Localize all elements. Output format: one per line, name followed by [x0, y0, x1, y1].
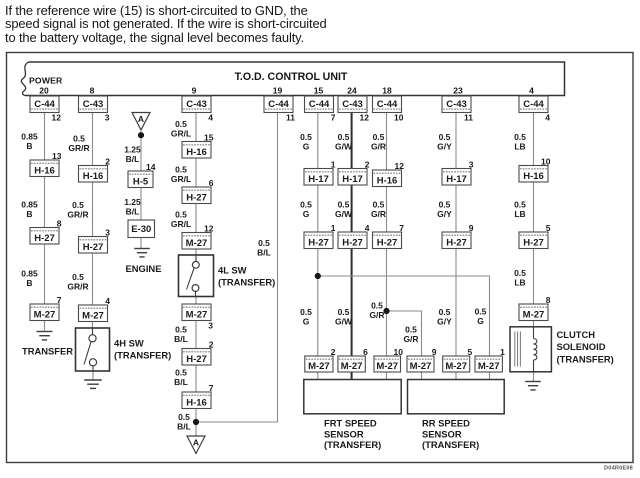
svg-text:GR/R: GR/R — [67, 210, 88, 220]
svg-text:0.85: 0.85 — [21, 269, 38, 279]
svg-text:G/R: G/R — [403, 334, 418, 344]
svg-text:0.5: 0.5 — [300, 200, 312, 210]
wire label: 0.5 G/Y — [437, 132, 452, 152]
wire label: 0.5 LB — [514, 268, 526, 288]
connector H-17 pin 1 — [304, 159, 336, 185]
svg-text:H-5: H-5 — [133, 176, 149, 187]
connector M-27 pin 5 — [443, 347, 473, 372]
svg-text:CLUTCH: CLUTCH — [557, 329, 596, 340]
svg-text:M-27: M-27 — [186, 238, 208, 249]
svg-text:9: 9 — [192, 86, 197, 96]
svg-text:11: 11 — [464, 113, 473, 123]
connector H-16 pin 15 — [182, 132, 214, 158]
svg-text:C-44: C-44 — [268, 99, 289, 110]
svg-text:0.5: 0.5 — [175, 119, 187, 129]
svg-text:0.5: 0.5 — [175, 165, 187, 175]
svg-text:D04R0E08: D04R0E08 — [604, 466, 633, 472]
RR speed sensor (transfer) — [408, 380, 505, 414]
svg-text:H-27: H-27 — [83, 242, 104, 253]
label CLUTCH SOLENOID (TRANSFER) — [557, 329, 614, 364]
svg-text:H-16: H-16 — [523, 171, 544, 182]
svg-text:14: 14 — [146, 162, 156, 172]
svg-text:7: 7 — [331, 113, 336, 123]
svg-text:POWER: POWER — [29, 76, 63, 86]
connector H-27 pin 5 — [519, 223, 551, 249]
svg-text:M-27: M-27 — [82, 310, 104, 321]
svg-text:(TRANSFER): (TRANSFER) — [557, 353, 614, 364]
connector M-27 pin 1 — [475, 347, 505, 372]
svg-text:H-16: H-16 — [186, 397, 207, 408]
svg-text:C-43: C-43 — [342, 99, 363, 110]
svg-text:5: 5 — [467, 347, 472, 357]
connector H-27 pin 4 — [338, 223, 370, 249]
switch 4L SW (transfer) — [179, 255, 214, 297]
svg-text:2: 2 — [331, 347, 336, 357]
wire label: 0.5 GR/L — [171, 210, 191, 230]
svg-text:0.5: 0.5 — [475, 307, 487, 317]
connector C-44 pin 7 — [305, 96, 336, 123]
connector M-27 pin 3 — [182, 304, 213, 331]
junction 0.5 G — [315, 273, 321, 279]
connector M-27 pin 8 — [519, 295, 551, 321]
svg-text:13: 13 — [52, 151, 62, 161]
svg-text:RR SPEED: RR SPEED — [422, 418, 470, 429]
svg-text:0.5: 0.5 — [439, 200, 451, 210]
wire label: 0.5 B/L — [174, 325, 188, 345]
svg-text:H-16: H-16 — [186, 147, 207, 158]
wire label: 0.5 G/W — [335, 307, 353, 327]
svg-text:H-27: H-27 — [446, 237, 467, 248]
junction on wire A — [138, 132, 144, 138]
svg-text:M-27: M-27 — [376, 361, 398, 372]
connector H-5 pin 14 — [128, 162, 156, 188]
svg-text:0.5: 0.5 — [175, 325, 187, 335]
svg-text:A: A — [138, 114, 144, 124]
svg-text:9: 9 — [432, 347, 437, 357]
svg-text:7: 7 — [209, 383, 214, 393]
wire label: 0.5 LB — [514, 200, 526, 220]
svg-text:2: 2 — [365, 159, 370, 169]
wire label: 0.5 GR/R — [67, 272, 88, 292]
svg-text:5: 5 — [546, 223, 551, 233]
svg-text:7: 7 — [57, 295, 62, 305]
wire label: 0.5 G/W — [335, 132, 353, 152]
wire 1.25 B/L column — [140, 131, 142, 249]
svg-text:4: 4 — [105, 296, 110, 306]
svg-text:TRANSFER: TRANSFER — [22, 346, 73, 357]
wire label: 0.5 B/L — [257, 238, 271, 258]
svg-text:B/L: B/L — [174, 377, 188, 387]
svg-text:0.5: 0.5 — [371, 301, 383, 311]
svg-text:20: 20 — [39, 86, 49, 96]
connector H-27 pin 2 — [182, 339, 214, 365]
wire 0.5 B/L column — [195, 297, 197, 437]
ground (transfer) — [37, 332, 53, 340]
wire label: 0.5 G/R — [369, 301, 384, 321]
svg-text:(TRANSFER): (TRANSFER) — [114, 349, 171, 360]
wire label: 1.25 B/L — [124, 145, 141, 165]
svg-text:6: 6 — [209, 178, 214, 188]
svg-text:H-27: H-27 — [186, 354, 207, 365]
svg-text:C-44: C-44 — [309, 99, 330, 110]
connector E-30 — [128, 220, 155, 238]
wire 0.5 B/L from C-44 pin 11 down and left to junction — [196, 96, 278, 423]
wire label: 1.25 B/L — [124, 197, 141, 217]
svg-text:9: 9 — [469, 223, 474, 233]
svg-text:0.5: 0.5 — [300, 307, 312, 317]
connector H-16 pin 2 — [79, 156, 111, 182]
connector C-44 pin 4 — [519, 96, 550, 123]
svg-text:0.5: 0.5 — [405, 325, 417, 335]
svg-text:4: 4 — [529, 86, 534, 96]
svg-text:SENSOR: SENSOR — [422, 428, 462, 439]
svg-text:0.5: 0.5 — [258, 238, 270, 248]
svg-text:G/Y: G/Y — [437, 209, 452, 219]
svg-text:12: 12 — [360, 113, 370, 123]
label 4L SW (TRANSFER) — [218, 265, 275, 288]
label TRANSFER — [22, 346, 73, 357]
svg-text:GR/L: GR/L — [171, 219, 191, 229]
svg-text:G/Y: G/Y — [437, 317, 452, 327]
svg-text:3: 3 — [469, 159, 474, 169]
svg-text:B/L: B/L — [177, 422, 191, 432]
svg-text:B: B — [26, 141, 32, 151]
svg-text:B: B — [26, 209, 32, 219]
svg-text:M-27: M-27 — [523, 309, 545, 320]
svg-text:24: 24 — [347, 86, 357, 96]
svg-text:GR/L: GR/L — [171, 129, 191, 139]
connector C-43 pin 11 — [442, 96, 473, 123]
wire 0.5 G column — [317, 96, 319, 380]
svg-text:0.5: 0.5 — [175, 368, 187, 378]
ground (4H switch) — [84, 380, 102, 388]
svg-text:G: G — [477, 316, 484, 326]
wire 0.5 G/R column — [386, 96, 388, 380]
svg-text:B/L: B/L — [126, 207, 140, 217]
svg-text:0.5: 0.5 — [300, 132, 312, 142]
svg-text:8: 8 — [546, 295, 551, 305]
wire 4H SW to ground — [92, 371, 94, 380]
junction B/L wires — [193, 419, 199, 425]
off-page reference A (top) — [132, 113, 150, 131]
svg-text:M-27: M-27 — [445, 361, 467, 372]
svg-text:H-27: H-27 — [523, 237, 544, 248]
connector H-27 pin 7 — [373, 223, 405, 249]
svg-text:(TRANSFER): (TRANSFER) — [324, 439, 381, 450]
svg-text:7: 7 — [399, 223, 404, 233]
svg-text:2: 2 — [105, 156, 110, 166]
wire 0.5 G branch to M-27 pin 1 — [318, 276, 490, 380]
svg-text:3: 3 — [105, 227, 110, 237]
svg-text:GR/R: GR/R — [68, 143, 89, 153]
svg-text:C-43: C-43 — [83, 99, 104, 110]
svg-text:0.5: 0.5 — [175, 210, 187, 220]
svg-text:C-44: C-44 — [34, 99, 55, 110]
svg-text:1: 1 — [500, 347, 505, 357]
svg-text:2: 2 — [209, 339, 214, 349]
wire 0.5 G/W column (bold) — [351, 96, 353, 380]
off-page reference A (bottom) — [187, 436, 205, 454]
svg-text:0.5: 0.5 — [514, 268, 526, 278]
svg-text:19: 19 — [273, 86, 283, 96]
svg-text:10: 10 — [394, 347, 404, 357]
wire label: 0.5 B/L — [174, 368, 188, 388]
wire label: 0.5 G/W — [335, 200, 353, 220]
connector M-27 pin 6 — [338, 347, 368, 372]
T.O.D. control unit U1 — [21, 62, 564, 96]
wire label: 0.5 G — [475, 307, 487, 327]
connector H-27 pin 8 — [30, 218, 62, 244]
connector H-27 pin 9 — [442, 223, 474, 249]
svg-text:G/R: G/R — [369, 310, 384, 320]
svg-text:FRT SPEED: FRT SPEED — [324, 418, 377, 429]
svg-text:T.O.D. CONTROL UNIT: T.O.D. CONTROL UNIT — [235, 71, 348, 83]
svg-text:1.25: 1.25 — [124, 197, 141, 207]
svg-text:GR/L: GR/L — [171, 174, 191, 184]
svg-text:LB: LB — [514, 209, 525, 219]
svg-text:18: 18 — [382, 86, 392, 96]
svg-text:G/W: G/W — [335, 142, 353, 152]
svg-text:0.5: 0.5 — [373, 132, 385, 142]
svg-text:4: 4 — [208, 113, 213, 123]
svg-text:0.5: 0.5 — [439, 132, 451, 142]
svg-text:8: 8 — [57, 218, 62, 228]
svg-text:0.5: 0.5 — [514, 200, 526, 210]
wire label: 0.5 G — [300, 200, 312, 220]
wire label: 0.5 G/R — [371, 132, 386, 152]
clutch solenoid (transfer) L1 — [510, 327, 551, 372]
wire label: 0.85 B — [21, 200, 38, 220]
svg-text:C-44: C-44 — [377, 99, 398, 110]
svg-text:1: 1 — [331, 159, 336, 169]
wire 0.5 G/R branch to M-27 pin 9 — [387, 311, 422, 380]
svg-text:LB: LB — [514, 278, 525, 288]
wire label: 0.5 GR/R — [67, 200, 88, 220]
caption text — [5, 4, 327, 44]
svg-text:G: G — [303, 317, 310, 327]
svg-text:H-16: H-16 — [34, 165, 55, 176]
svg-text:G/W: G/W — [335, 209, 353, 219]
switch 4H SW (transfer) — [76, 328, 110, 371]
svg-text:H-27: H-27 — [308, 237, 329, 248]
svg-text:0.85: 0.85 — [21, 200, 38, 210]
wire 0.5 GR/R column — [92, 96, 94, 329]
svg-text:M-27: M-27 — [341, 361, 363, 372]
wire label: 0.5 GR/R — [68, 134, 89, 154]
connector M-27 pin 9 — [407, 347, 437, 372]
ground (clutch solenoid) — [525, 382, 541, 390]
svg-text:15: 15 — [204, 132, 214, 142]
svg-text:M-27: M-27 — [308, 361, 330, 372]
svg-text:3: 3 — [208, 321, 213, 331]
wire label: 0.5 G/R — [371, 200, 386, 220]
svg-text:0.85: 0.85 — [21, 132, 38, 142]
svg-text:GR/R: GR/R — [67, 282, 88, 292]
svg-text:11: 11 — [286, 113, 295, 123]
ground (engine) — [134, 249, 150, 257]
svg-text:(TRANSFER): (TRANSFER) — [422, 439, 479, 450]
wire label: 0.5 G — [300, 307, 312, 327]
svg-text:M-27: M-27 — [478, 361, 500, 372]
svg-text:12: 12 — [395, 161, 405, 171]
wire label: 0.5 G — [300, 132, 312, 152]
svg-text:B/L: B/L — [126, 154, 140, 164]
FRT speed sensor (transfer) — [304, 380, 401, 414]
svg-text:G: G — [303, 209, 310, 219]
svg-text:4L SW: 4L SW — [218, 265, 247, 276]
connector H-16 pin 7 — [182, 383, 214, 409]
svg-text:SENSOR: SENSOR — [324, 428, 364, 439]
connector M-27 pin 12 — [182, 223, 214, 249]
connector H-17 pin 2 — [338, 159, 370, 185]
wire 0.5 LB column — [533, 96, 535, 382]
control unit pin numbers — [39, 86, 534, 96]
svg-text:H-17: H-17 — [342, 174, 363, 185]
connector H-27 pin 3 — [79, 227, 111, 253]
svg-text:0.5: 0.5 — [338, 132, 350, 142]
svg-text:0.5: 0.5 — [72, 272, 84, 282]
connector C-43 pin 4 — [182, 96, 213, 123]
svg-text:0.5: 0.5 — [338, 200, 350, 210]
svg-text:G/Y: G/Y — [437, 142, 452, 152]
connector C-44 pin 11 — [264, 96, 295, 123]
svg-text:B/L: B/L — [174, 334, 188, 344]
svg-text:8: 8 — [90, 86, 95, 96]
connector H-27 pin 6 — [182, 178, 214, 204]
connector C-43 pin 3 — [79, 96, 110, 123]
svg-text:B/L: B/L — [257, 248, 271, 258]
svg-text:ENGINE: ENGINE — [126, 263, 162, 274]
svg-text:M-27: M-27 — [34, 309, 56, 320]
wire label: 0.5 G/Y — [437, 200, 452, 220]
svg-text:H-17: H-17 — [446, 174, 467, 185]
svg-text:C-43: C-43 — [186, 99, 207, 110]
wire label: 0.85 B — [21, 269, 38, 289]
wire label: 0.5 LB — [514, 132, 526, 152]
wire label: 0.5 B/L — [177, 412, 191, 432]
connector H-16 pin 10 — [519, 156, 551, 182]
svg-text:H-27: H-27 — [34, 233, 55, 244]
svg-text:10: 10 — [394, 113, 404, 123]
svg-text:H-16: H-16 — [83, 171, 104, 182]
svg-text:C-44: C-44 — [523, 99, 544, 110]
svg-text:23: 23 — [453, 86, 463, 96]
svg-text:G/W: G/W — [335, 317, 353, 327]
svg-text:H-17: H-17 — [308, 174, 329, 185]
svg-text:4H SW: 4H SW — [114, 338, 144, 349]
wire label: 0.5 G/R — [403, 325, 418, 345]
svg-text:M-27: M-27 — [410, 361, 432, 372]
label FRT SPEED SENSOR (TRANSFER) — [324, 418, 381, 451]
svg-text:0.5: 0.5 — [514, 132, 526, 142]
svg-text:M-27: M-27 — [186, 309, 208, 320]
svg-text:0.5: 0.5 — [373, 200, 385, 210]
label ENGINE — [126, 263, 162, 274]
connector C-43 pin 12 — [338, 96, 369, 123]
label 4H SW (TRANSFER) — [114, 338, 171, 361]
svg-text:E-30: E-30 — [131, 224, 151, 235]
svg-text:H-27: H-27 — [342, 237, 363, 248]
svg-text:1: 1 — [331, 223, 336, 233]
connector M-27 pin 10 — [374, 347, 403, 372]
wire label: 0.5 G/Y — [437, 307, 452, 327]
svg-text:6: 6 — [363, 347, 368, 357]
svg-text:(TRANSFER): (TRANSFER) — [218, 276, 275, 287]
connector H-27 pin 1 — [304, 223, 336, 249]
svg-text:0.5: 0.5 — [178, 412, 190, 422]
svg-text:4: 4 — [545, 113, 550, 123]
svg-text:0.5: 0.5 — [338, 307, 350, 317]
wire label: 0.85 B — [21, 132, 38, 152]
connector M-27 pin 2 — [305, 347, 336, 372]
wire 0.5 G/Y column — [455, 96, 457, 380]
svg-text:3: 3 — [105, 113, 110, 123]
svg-text:12: 12 — [52, 113, 62, 123]
svg-text:10: 10 — [541, 156, 551, 166]
wire label: 0.5 GR/L — [171, 165, 191, 185]
junction 0.5 G/R — [383, 308, 389, 314]
svg-text:C-43: C-43 — [446, 99, 467, 110]
connector C-44 pin 10 — [373, 96, 404, 123]
svg-text:1.25: 1.25 — [124, 145, 141, 155]
connector M-27 pin 7 — [30, 295, 62, 321]
svg-text:0.5: 0.5 — [72, 200, 84, 210]
connector H-16 pin 12 — [373, 161, 405, 187]
svg-text:B: B — [26, 278, 32, 288]
svg-text:0.5: 0.5 — [73, 134, 85, 144]
wire label: 0.5 GR/L — [171, 119, 191, 139]
svg-text:G: G — [303, 142, 310, 152]
svg-text:H-27: H-27 — [186, 192, 207, 203]
connector M-27 pin 4 — [79, 296, 111, 322]
svg-text:H-16: H-16 — [377, 175, 398, 186]
svg-text:15: 15 — [314, 86, 324, 96]
wire 0.85 B column — [44, 96, 46, 332]
svg-text:G/R: G/R — [371, 209, 386, 219]
svg-text:12: 12 — [204, 223, 214, 233]
svg-text:0.5: 0.5 — [439, 307, 451, 317]
connector C-44 pin 12 — [30, 96, 61, 123]
svg-text:H-27: H-27 — [377, 237, 398, 248]
svg-text:4: 4 — [365, 223, 370, 233]
label RR SPEED SENSOR (TRANSFER) — [422, 418, 479, 451]
svg-text:LB: LB — [514, 142, 525, 152]
svg-text:G/R: G/R — [371, 142, 386, 152]
connector H-16 pin 13 — [30, 151, 62, 177]
wire 0.5 GR/L column — [195, 96, 197, 256]
svg-text:A: A — [193, 438, 199, 448]
svg-text:SOLENOID: SOLENOID — [557, 341, 606, 352]
connector H-17 pin 3 — [442, 159, 474, 185]
